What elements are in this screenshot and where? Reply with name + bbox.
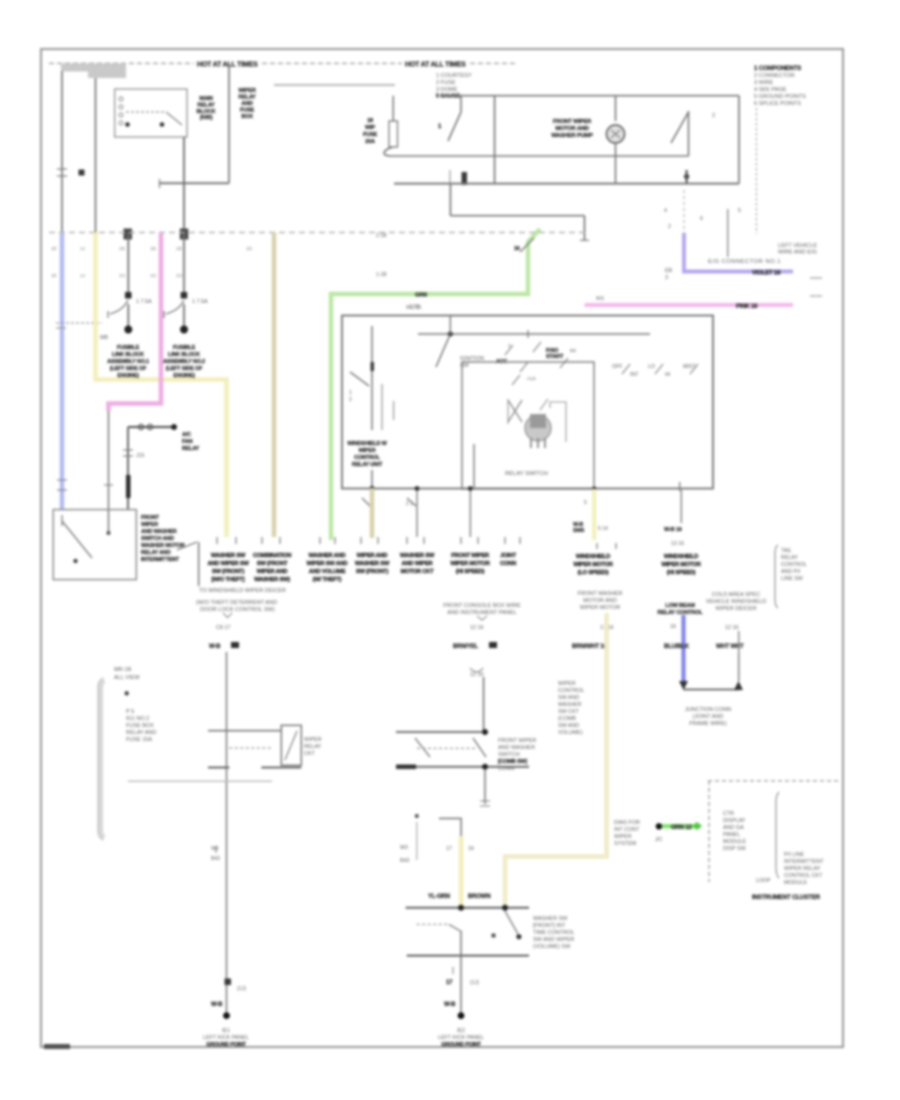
svg-text:FRONT WIPER: FRONT WIPER bbox=[451, 553, 490, 559]
svg-text:START: START bbox=[546, 354, 564, 360]
svg-text:HOT AT ALL TIMES: HOT AT ALL TIMES bbox=[405, 62, 466, 69]
svg-text:WINDSHIELD: WINDSHIELD bbox=[576, 554, 610, 560]
svg-text:WASHER SW: WASHER SW bbox=[533, 916, 568, 922]
svg-text:WIPER DEICER: WIPER DEICER bbox=[715, 606, 756, 612]
svg-text:W3: W3 bbox=[211, 846, 219, 852]
svg-text:COMBINATION: COMBINATION bbox=[253, 553, 291, 559]
svg-text:(JOINT AND: (JOINT AND bbox=[693, 714, 724, 720]
svg-text:ALL VIEW: ALL VIEW bbox=[114, 675, 140, 681]
svg-text:RELAY: RELAY bbox=[197, 103, 215, 109]
svg-text:AND VOLUME: AND VOLUME bbox=[309, 569, 346, 575]
svg-text:16: 16 bbox=[468, 846, 474, 852]
svg-text:IG1 NO.2: IG1 NO.2 bbox=[126, 716, 149, 722]
svg-text:WIPER AND: WIPER AND bbox=[257, 569, 288, 575]
svg-text:WIP: WIP bbox=[365, 125, 375, 131]
svg-text:MOTOR AND: MOTOR AND bbox=[583, 598, 617, 604]
svg-text:(LEFT SIDE OF: (LEFT SIDE OF bbox=[110, 366, 147, 372]
svg-text:LINK BLOCK: LINK BLOCK bbox=[112, 352, 144, 358]
svg-text:AND GA: AND GA bbox=[723, 825, 744, 831]
svg-text:VOLUME): VOLUME) bbox=[558, 730, 583, 736]
svg-text:1B: 1B bbox=[150, 246, 156, 252]
svg-text:MOTOR CKT: MOTOR CKT bbox=[401, 569, 434, 575]
svg-text:WASHER SW): WASHER SW) bbox=[254, 577, 290, 583]
svg-text:12 16: 12 16 bbox=[725, 625, 739, 631]
svg-text:12 16: 12 16 bbox=[470, 625, 484, 631]
svg-text:MB: MB bbox=[100, 335, 108, 341]
svg-text:CONTROL: CONTROL bbox=[354, 455, 381, 461]
svg-text:16: 16 bbox=[670, 624, 676, 630]
svg-text:[COMB SW]: [COMB SW] bbox=[498, 759, 527, 765]
svg-text:WIPER: WIPER bbox=[304, 737, 322, 743]
svg-text:DIAG FOR: DIAG FOR bbox=[614, 820, 640, 826]
svg-text:RELAY: RELAY bbox=[238, 95, 256, 101]
svg-text:FAN: FAN bbox=[182, 439, 193, 445]
svg-text:WIPER MOTOR: WIPER MOTOR bbox=[450, 561, 490, 567]
svg-text:(HI SPEED): (HI SPEED) bbox=[667, 570, 696, 576]
svg-text:FUSE 15A: FUSE 15A bbox=[126, 737, 152, 743]
svg-text:1E: 1E bbox=[51, 273, 57, 279]
svg-text:YL-GRN: YL-GRN bbox=[428, 894, 450, 900]
svg-text:1 18: 1 18 bbox=[409, 304, 419, 310]
svg-text:SWITCH: SWITCH bbox=[498, 752, 520, 758]
svg-text:2 1: 2 1 bbox=[406, 501, 413, 507]
svg-text:17: 17 bbox=[446, 980, 453, 986]
svg-text:FUSIBLE: FUSIBLE bbox=[173, 345, 196, 351]
svg-text:E/G CONNECTOR NO.1: E/G CONNECTOR NO.1 bbox=[708, 259, 781, 265]
svg-text:CONN: CONN bbox=[500, 561, 516, 567]
svg-text:HI: HI bbox=[665, 372, 670, 378]
svg-text:(VOLUME) SW: (VOLUME) SW bbox=[533, 944, 571, 950]
svg-text:RELAY: RELAY bbox=[182, 446, 200, 452]
svg-text:DISP SW: DISP SW bbox=[723, 846, 747, 852]
svg-text:B6: B6 bbox=[570, 348, 576, 354]
svg-text:A/C: A/C bbox=[182, 432, 191, 438]
svg-text:1G: 1G bbox=[150, 273, 157, 279]
svg-text:2: 2 bbox=[668, 224, 671, 230]
svg-text:JOINT: JOINT bbox=[500, 553, 517, 559]
svg-text:WINDSHIELD: WINDSHIELD bbox=[664, 554, 698, 560]
svg-text:W-B: W-B bbox=[209, 644, 221, 650]
svg-text:WIPER: WIPER bbox=[141, 522, 158, 528]
svg-text:ENGINE): ENGINE) bbox=[117, 373, 139, 379]
svg-text:AND WIPER: AND WIPER bbox=[402, 561, 434, 567]
svg-text:2: 2 bbox=[712, 113, 715, 119]
svg-text:W-B: W-B bbox=[444, 1002, 456, 1008]
svg-text:RELAY AND: RELAY AND bbox=[141, 550, 171, 556]
svg-text:CKT: CKT bbox=[304, 751, 315, 757]
svg-text:BOX: BOX bbox=[241, 114, 253, 120]
svg-text:13 16: 13 16 bbox=[671, 541, 684, 547]
svg-text:17: 17 bbox=[446, 846, 452, 852]
svg-text:WHT WHT: WHT WHT bbox=[716, 644, 744, 650]
svg-text:INT CONT: INT CONT bbox=[614, 827, 640, 833]
svg-text:AND WIPER SW: AND WIPER SW bbox=[207, 561, 249, 567]
svg-text:FRONT WIPER: FRONT WIPER bbox=[498, 738, 536, 744]
svg-text:ASSEMBLY NO.1: ASSEMBLY NO.1 bbox=[107, 359, 149, 365]
svg-text:SW (FRONT: SW (FRONT bbox=[257, 561, 288, 567]
svg-text:(LEFT SIDE OF: (LEFT SIDE OF bbox=[166, 366, 203, 372]
svg-text:1J: 1J bbox=[80, 246, 86, 252]
svg-text:GRN: GRN bbox=[415, 293, 427, 299]
svg-text:18: 18 bbox=[367, 118, 373, 124]
svg-text:IH1: IH1 bbox=[596, 296, 604, 302]
svg-text:EB: EB bbox=[665, 268, 673, 274]
svg-text:TO WINDSHIELD WIPER DEICER: TO WINDSHIELD WIPER DEICER bbox=[199, 588, 286, 594]
svg-text:6 SPLICE POINTS: 6 SPLICE POINTS bbox=[754, 101, 801, 107]
svg-text:TIME CONTROL: TIME CONTROL bbox=[533, 930, 575, 936]
svg-text:1J: 1J bbox=[80, 273, 86, 279]
svg-text:1: 1 bbox=[349, 390, 352, 396]
svg-text:HOT AT ALL TIMES: HOT AT ALL TIMES bbox=[197, 62, 258, 69]
svg-text:(W/ THEFT): (W/ THEFT) bbox=[313, 577, 342, 583]
svg-text:LINE SW: LINE SW bbox=[781, 576, 803, 582]
svg-text:J/C: J/C bbox=[655, 837, 663, 843]
svg-text:SWITCH AND: SWITCH AND bbox=[141, 536, 174, 542]
svg-text:AND: AND bbox=[241, 101, 253, 107]
svg-text:2 CONNECTOR: 2 CONNECTOR bbox=[754, 73, 795, 79]
svg-text:4 SEE PAGE: 4 SEE PAGE bbox=[754, 87, 787, 93]
svg-text:AND P/I: AND P/I bbox=[781, 569, 800, 575]
svg-text:(LO SPEED): (LO SPEED) bbox=[578, 570, 609, 576]
svg-text:LO: LO bbox=[648, 364, 655, 370]
svg-text:LEFT KICK PANEL: LEFT KICK PANEL bbox=[438, 1035, 484, 1041]
svg-text:VEHICLE WINDSHIELD: VEHICLE WINDSHIELD bbox=[706, 599, 767, 605]
svg-text:FRONT WIPER: FRONT WIPER bbox=[553, 119, 592, 125]
svg-text:1D: 1D bbox=[246, 246, 253, 252]
svg-text:FUSIBLE: FUSIBLE bbox=[117, 345, 140, 351]
svg-text:2-1B: 2-1B bbox=[376, 233, 387, 239]
svg-text:RELAY: RELAY bbox=[304, 744, 322, 750]
svg-text:1 7.5A: 1 7.5A bbox=[136, 299, 152, 305]
svg-text:C8 17: C8 17 bbox=[216, 625, 230, 631]
svg-text:PINK 16: PINK 16 bbox=[736, 304, 758, 310]
svg-text:JUNCTION CONN: JUNCTION CONN bbox=[685, 707, 731, 713]
svg-text:IE1: IE1 bbox=[222, 1028, 230, 1034]
svg-text:WIPER MOTOR: WIPER MOTOR bbox=[580, 605, 621, 611]
svg-text:RELAY: RELAY bbox=[781, 555, 798, 561]
svg-text:1 7.5A: 1 7.5A bbox=[192, 299, 208, 305]
svg-text:LEFT KICK PANEL: LEFT KICK PANEL bbox=[203, 1035, 249, 1041]
svg-text:J15: J15 bbox=[136, 453, 144, 459]
svg-text:MOTOR AND: MOTOR AND bbox=[555, 126, 589, 132]
svg-text:3 DOME: 3 DOME bbox=[436, 87, 458, 93]
svg-text:WASHER AND: WASHER AND bbox=[309, 553, 346, 559]
svg-text:LINK BLOCK: LINK BLOCK bbox=[168, 352, 200, 358]
svg-text:WASHER SW: WASHER SW bbox=[400, 553, 435, 559]
svg-text:SW (FRONT): SW (FRONT) bbox=[356, 569, 389, 575]
svg-text:WASHER SW: WASHER SW bbox=[211, 553, 246, 559]
svg-text:WASHER MOTOR: WASHER MOTOR bbox=[141, 543, 185, 549]
svg-text:W3: W3 bbox=[400, 845, 408, 851]
svg-text:CONN: CONN bbox=[498, 766, 514, 772]
svg-text:TAIL: TAIL bbox=[781, 548, 792, 554]
svg-text:MODULE: MODULE bbox=[723, 839, 746, 845]
svg-text:RELAY SWITCH: RELAY SWITCH bbox=[505, 471, 548, 477]
svg-text:ENGINE): ENGINE) bbox=[173, 373, 195, 379]
svg-text:WIRE AND E/G: WIRE AND E/G bbox=[778, 250, 817, 256]
svg-text:WINDSHIELD W: WINDSHIELD W bbox=[347, 441, 387, 447]
svg-text:2 FUSE: 2 FUSE bbox=[436, 80, 456, 86]
svg-text:5 14: 5 14 bbox=[598, 526, 608, 532]
svg-text:LEFT VEHICLE: LEFT VEHICLE bbox=[778, 243, 817, 249]
svg-text:LOOP: LOOP bbox=[756, 878, 771, 884]
svg-text:6: 6 bbox=[700, 216, 703, 222]
svg-text:3: 3 bbox=[665, 275, 668, 281]
svg-text:B43: B43 bbox=[400, 858, 409, 864]
svg-text:(COMB: (COMB bbox=[558, 716, 576, 722]
svg-text:2: 2 bbox=[349, 397, 352, 403]
svg-text:WIPER: WIPER bbox=[558, 681, 576, 687]
svg-text:16: 16 bbox=[514, 246, 520, 252]
svg-text:SW CKT: SW CKT bbox=[558, 709, 580, 715]
svg-text:FRONT CONSOLE BOX WIRE: FRONT CONSOLE BOX WIRE bbox=[443, 603, 521, 609]
svg-text:INTERMITTENT: INTERMITTENT bbox=[141, 557, 180, 563]
svg-text:INT: INT bbox=[630, 372, 639, 378]
svg-text:SW AND: SW AND bbox=[558, 723, 579, 729]
svg-text:IE2: IE2 bbox=[457, 1028, 465, 1034]
svg-text:INSTRUMENT CLUSTER: INSTRUMENT CLUSTER bbox=[752, 894, 821, 901]
svg-text:BRN/WHT 16: BRN/WHT 16 bbox=[572, 644, 608, 650]
svg-text:RELAY AND: RELAY AND bbox=[126, 730, 156, 736]
svg-text:WIPER: WIPER bbox=[238, 88, 255, 94]
svg-text:CONTROL: CONTROL bbox=[781, 562, 807, 568]
svg-text:SW (FRONT): SW (FRONT) bbox=[212, 569, 245, 575]
svg-text:20A: 20A bbox=[365, 139, 375, 145]
svg-text:2: 2 bbox=[508, 343, 511, 349]
svg-text:1-1B: 1-1B bbox=[376, 272, 387, 278]
svg-text:3 WIRE: 3 WIRE bbox=[754, 80, 774, 86]
svg-text:WIPER: WIPER bbox=[614, 834, 632, 840]
svg-text:FRAME WIRE): FRAME WIRE) bbox=[689, 721, 727, 727]
svg-text:WASHER: WASHER bbox=[558, 702, 582, 708]
svg-text:IGNITION: IGNITION bbox=[460, 356, 484, 362]
svg-text:(HI SPEED): (HI SPEED) bbox=[456, 569, 485, 575]
svg-text:WIPER MOTOR: WIPER MOTOR bbox=[573, 562, 613, 568]
svg-text:1 COMPONENTS: 1 COMPONENTS bbox=[754, 65, 801, 72]
svg-text:DOOR LOCK CONTROL SW): DOOR LOCK CONTROL SW) bbox=[200, 607, 275, 613]
svg-text:COLD AREA SPEC: COLD AREA SPEC bbox=[712, 592, 761, 598]
svg-text:SW AND WIPER: SW AND WIPER bbox=[533, 937, 574, 943]
svg-text:WASHER PUMP: WASHER PUMP bbox=[551, 133, 593, 139]
svg-text:GROUND POINT: GROUND POINT bbox=[206, 1042, 246, 1048]
svg-text:AND WASHER: AND WASHER bbox=[498, 745, 535, 751]
svg-text:WIPER MOTOR: WIPER MOTOR bbox=[661, 562, 701, 568]
svg-text:(1J): (1J) bbox=[237, 986, 246, 992]
svg-text:CONTROL: CONTROL bbox=[558, 688, 584, 694]
svg-text:AND INSTRUMENT PANEL: AND INSTRUMENT PANEL bbox=[447, 610, 516, 616]
svg-text:AND WASHER: AND WASHER bbox=[141, 529, 177, 535]
svg-text:DISPLAY: DISPLAY bbox=[723, 818, 746, 824]
svg-text:1B: 1B bbox=[119, 246, 125, 252]
svg-text:INTERMITTENT: INTERMITTENT bbox=[784, 859, 824, 865]
svg-text:1E: 1E bbox=[51, 246, 57, 252]
svg-text:12 16: 12 16 bbox=[470, 672, 484, 678]
svg-text:BLU/BLK: BLU/BLK bbox=[664, 644, 690, 650]
svg-text:FUSE: FUSE bbox=[240, 108, 255, 114]
svg-text:1G: 1G bbox=[119, 273, 126, 279]
svg-text:BROWN: BROWN bbox=[468, 894, 490, 900]
svg-text:4: 4 bbox=[664, 208, 667, 214]
svg-text:LOW BEAM: LOW BEAM bbox=[665, 603, 695, 609]
svg-text:1G: 1G bbox=[176, 273, 183, 279]
svg-text:WASHER SW: WASHER SW bbox=[355, 561, 390, 567]
svg-text:SW AND: SW AND bbox=[558, 695, 579, 701]
svg-text:WIPER SW AND: WIPER SW AND bbox=[307, 561, 348, 567]
svg-text:GROUND POINT: GROUND POINT bbox=[441, 1042, 481, 1048]
svg-text:FRONT WASHER: FRONT WASHER bbox=[577, 591, 622, 597]
svg-text:A13: A13 bbox=[527, 376, 536, 382]
svg-text:[R/B]: [R/B] bbox=[200, 115, 213, 121]
svg-text:1B: 1B bbox=[176, 246, 182, 252]
svg-text:P/I LINE: P/I LINE bbox=[784, 852, 804, 858]
svg-text:GRN 12: GRN 12 bbox=[671, 825, 692, 831]
svg-text:ASSEMBLY NO.2: ASSEMBLY NO.2 bbox=[163, 359, 205, 365]
svg-text:SYSTEM: SYSTEM bbox=[614, 841, 637, 847]
svg-text:[FRONT] INT: [FRONT] INT bbox=[533, 923, 566, 929]
svg-text:W-B: W-B bbox=[211, 1002, 223, 1008]
svg-text:RELAY UNIT: RELAY UNIT bbox=[352, 462, 383, 468]
svg-text:W-B 16: W-B 16 bbox=[664, 527, 682, 533]
svg-text:5: 5 bbox=[738, 208, 741, 214]
svg-text:FRONT: FRONT bbox=[141, 515, 160, 521]
svg-text:MODULE: MODULE bbox=[784, 880, 807, 886]
svg-text:VIOLET 18: VIOLET 18 bbox=[752, 271, 781, 277]
svg-text:FUSE BOX: FUSE BOX bbox=[126, 723, 154, 729]
svg-text:(W/O THEFT DETERRENT AND: (W/O THEFT DETERRENT AND bbox=[196, 600, 277, 606]
svg-text:(1J): (1J) bbox=[470, 980, 479, 986]
svg-text:5 GROUND POINTS: 5 GROUND POINTS bbox=[754, 94, 806, 100]
svg-text:P 5: P 5 bbox=[126, 709, 134, 715]
svg-text:SW5: SW5 bbox=[573, 528, 584, 534]
svg-text:CTR: CTR bbox=[723, 811, 734, 817]
svg-text:FUSE: FUSE bbox=[363, 132, 378, 138]
svg-text:CONTROL CKT: CONTROL CKT bbox=[784, 873, 823, 879]
svg-text:MAIN: MAIN bbox=[199, 96, 213, 102]
svg-text:MR-1B: MR-1B bbox=[114, 667, 132, 673]
svg-text:PANEL: PANEL bbox=[723, 832, 740, 838]
svg-text:OFF: OFF bbox=[612, 364, 622, 370]
svg-text:WIPER AND: WIPER AND bbox=[357, 553, 388, 559]
svg-text:WIPER RELAY: WIPER RELAY bbox=[784, 866, 821, 872]
svg-text:5: 5 bbox=[584, 500, 587, 506]
svg-text:RELAY CONTROL: RELAY CONTROL bbox=[658, 610, 704, 616]
svg-text:BRN/YEL: BRN/YEL bbox=[453, 644, 478, 650]
svg-text:WIPER: WIPER bbox=[358, 448, 375, 454]
svg-text:B43: B43 bbox=[211, 856, 220, 862]
svg-text:1 COURTESY: 1 COURTESY bbox=[436, 73, 472, 79]
svg-text:[W/O THEFT]: [W/O THEFT] bbox=[212, 577, 245, 583]
